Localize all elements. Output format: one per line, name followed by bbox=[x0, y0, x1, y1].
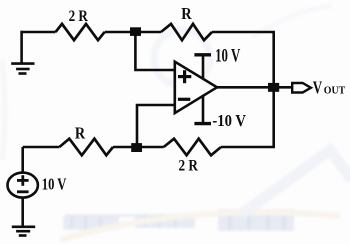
resistor R (bottom) bbox=[59, 139, 113, 156]
source plus mark bbox=[17, 175, 29, 186]
wire source to ground bbox=[21, 197, 24, 227]
wire bottom-left bbox=[23, 146, 60, 149]
node B junction bbox=[131, 143, 142, 152]
node A junction bbox=[130, 27, 141, 36]
watermark arcs bbox=[60, 212, 340, 240]
op-amp U1 bbox=[175, 62, 217, 113]
svg-text:OUT: OUT bbox=[324, 85, 345, 97]
wire node B to inverting input bbox=[137, 105, 175, 146]
wire right vertical lower bbox=[221, 86, 274, 147]
svg-text:V: V bbox=[313, 78, 322, 98]
ground (top-left) bbox=[11, 31, 34, 74]
output pointer symbol bbox=[292, 83, 311, 93]
wire 2R to node A bbox=[105, 31, 161, 34]
svg-text:R: R bbox=[181, 4, 192, 23]
wire node A to non-inverting input bbox=[135, 33, 174, 70]
negative supply rail -10V bbox=[194, 95, 211, 124]
wire R to node B bbox=[113, 146, 164, 149]
positive supply rail +10V bbox=[194, 55, 211, 80]
resistor R (top) bbox=[161, 24, 212, 40]
output node junction bbox=[268, 83, 279, 92]
svg-text:10 V: 10 V bbox=[215, 47, 241, 67]
svg-text:2 R: 2 R bbox=[69, 8, 89, 25]
svg-text:-10 V: -10 V bbox=[212, 111, 246, 130]
voltage source V1 bbox=[8, 173, 38, 198]
wire source to bottom rail bbox=[21, 147, 24, 173]
resistor 2R (bottom) bbox=[164, 139, 221, 156]
svg-text:2 R: 2 R bbox=[179, 158, 199, 175]
op-amp minus input mark bbox=[178, 98, 190, 101]
svg-text:10 V: 10 V bbox=[42, 174, 67, 193]
wire R to right corner bbox=[212, 32, 274, 88]
resistor 2R (top) bbox=[56, 24, 105, 40]
ground (bottom-left) bbox=[12, 227, 35, 236]
output wire bbox=[216, 86, 292, 89]
source minus mark bbox=[17, 190, 29, 193]
op-amp plus input mark bbox=[178, 70, 191, 83]
svg-text:R: R bbox=[75, 123, 86, 142]
wire top-left bbox=[22, 31, 56, 34]
